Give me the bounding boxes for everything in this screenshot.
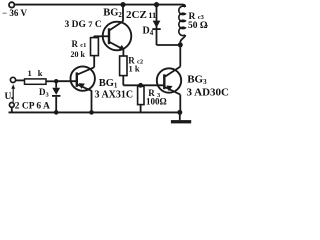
svg-text:− 36 V: − 36 V (2, 8, 27, 18)
svg-text:3 AD30C: 3 AD30C (187, 86, 230, 98)
svg-text:20 k: 20 k (71, 50, 86, 59)
svg-text:3 DG 7 C: 3 DG 7 C (65, 19, 102, 30)
svg-text:50 Ω: 50 Ω (188, 21, 208, 31)
svg-text:k: k (38, 68, 43, 78)
svg-text:3 AX31C: 3 AX31C (95, 89, 134, 100)
svg-text:2 CP 6 A: 2 CP 6 A (15, 102, 50, 112)
svg-text:U: U (5, 92, 12, 102)
svg-text:100Ω: 100Ω (146, 97, 167, 107)
svg-text:2CZ11: 2CZ11 (126, 9, 156, 21)
svg-text:1 k: 1 k (129, 63, 140, 73)
svg-text:1: 1 (28, 68, 32, 78)
